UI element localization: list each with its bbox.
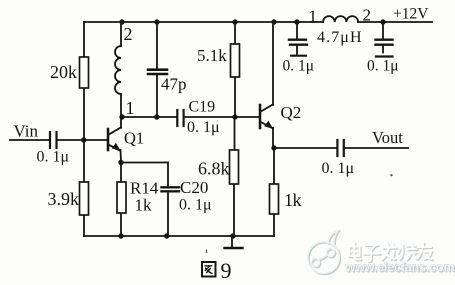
svg-text:1k: 1k — [135, 196, 153, 215]
svg-text:0. 1μ: 0. 1μ — [187, 119, 220, 136]
svg-text:20k: 20k — [50, 62, 77, 82]
svg-text:0. 1μ: 0. 1μ — [322, 160, 355, 177]
svg-text:2: 2 — [124, 24, 133, 44]
svg-text:9: 9 — [221, 258, 232, 283]
svg-text:Vin: Vin — [14, 122, 39, 141]
svg-text:C19: C19 — [189, 99, 216, 116]
svg-text:C20: C20 — [180, 178, 208, 197]
svg-text:+12V: +12V — [393, 6, 429, 23]
svg-text:Q2: Q2 — [281, 103, 302, 122]
svg-text:Q1: Q1 — [124, 129, 144, 148]
svg-text:6.8k: 6.8k — [198, 159, 230, 179]
svg-text:0. 1μ: 0. 1μ — [179, 197, 212, 214]
svg-text:www.elecfans.com: www.elecfans.com — [345, 261, 455, 275]
svg-text:1: 1 — [309, 7, 318, 26]
svg-text:47p: 47p — [161, 75, 187, 94]
svg-text:3.9k: 3.9k — [48, 189, 80, 209]
svg-text:5.1k: 5.1k — [197, 46, 227, 65]
svg-text:0. 1μ: 0. 1μ — [367, 58, 399, 75]
svg-text:2: 2 — [363, 6, 372, 25]
svg-text:Vout: Vout — [372, 128, 403, 147]
svg-text:1: 1 — [126, 98, 135, 118]
svg-text:0. 1μ: 0. 1μ — [37, 149, 70, 166]
svg-text:0. 1μ: 0. 1μ — [283, 58, 315, 75]
svg-text:1k: 1k — [284, 190, 302, 210]
svg-text:4.7μH: 4.7μH — [317, 29, 363, 46]
